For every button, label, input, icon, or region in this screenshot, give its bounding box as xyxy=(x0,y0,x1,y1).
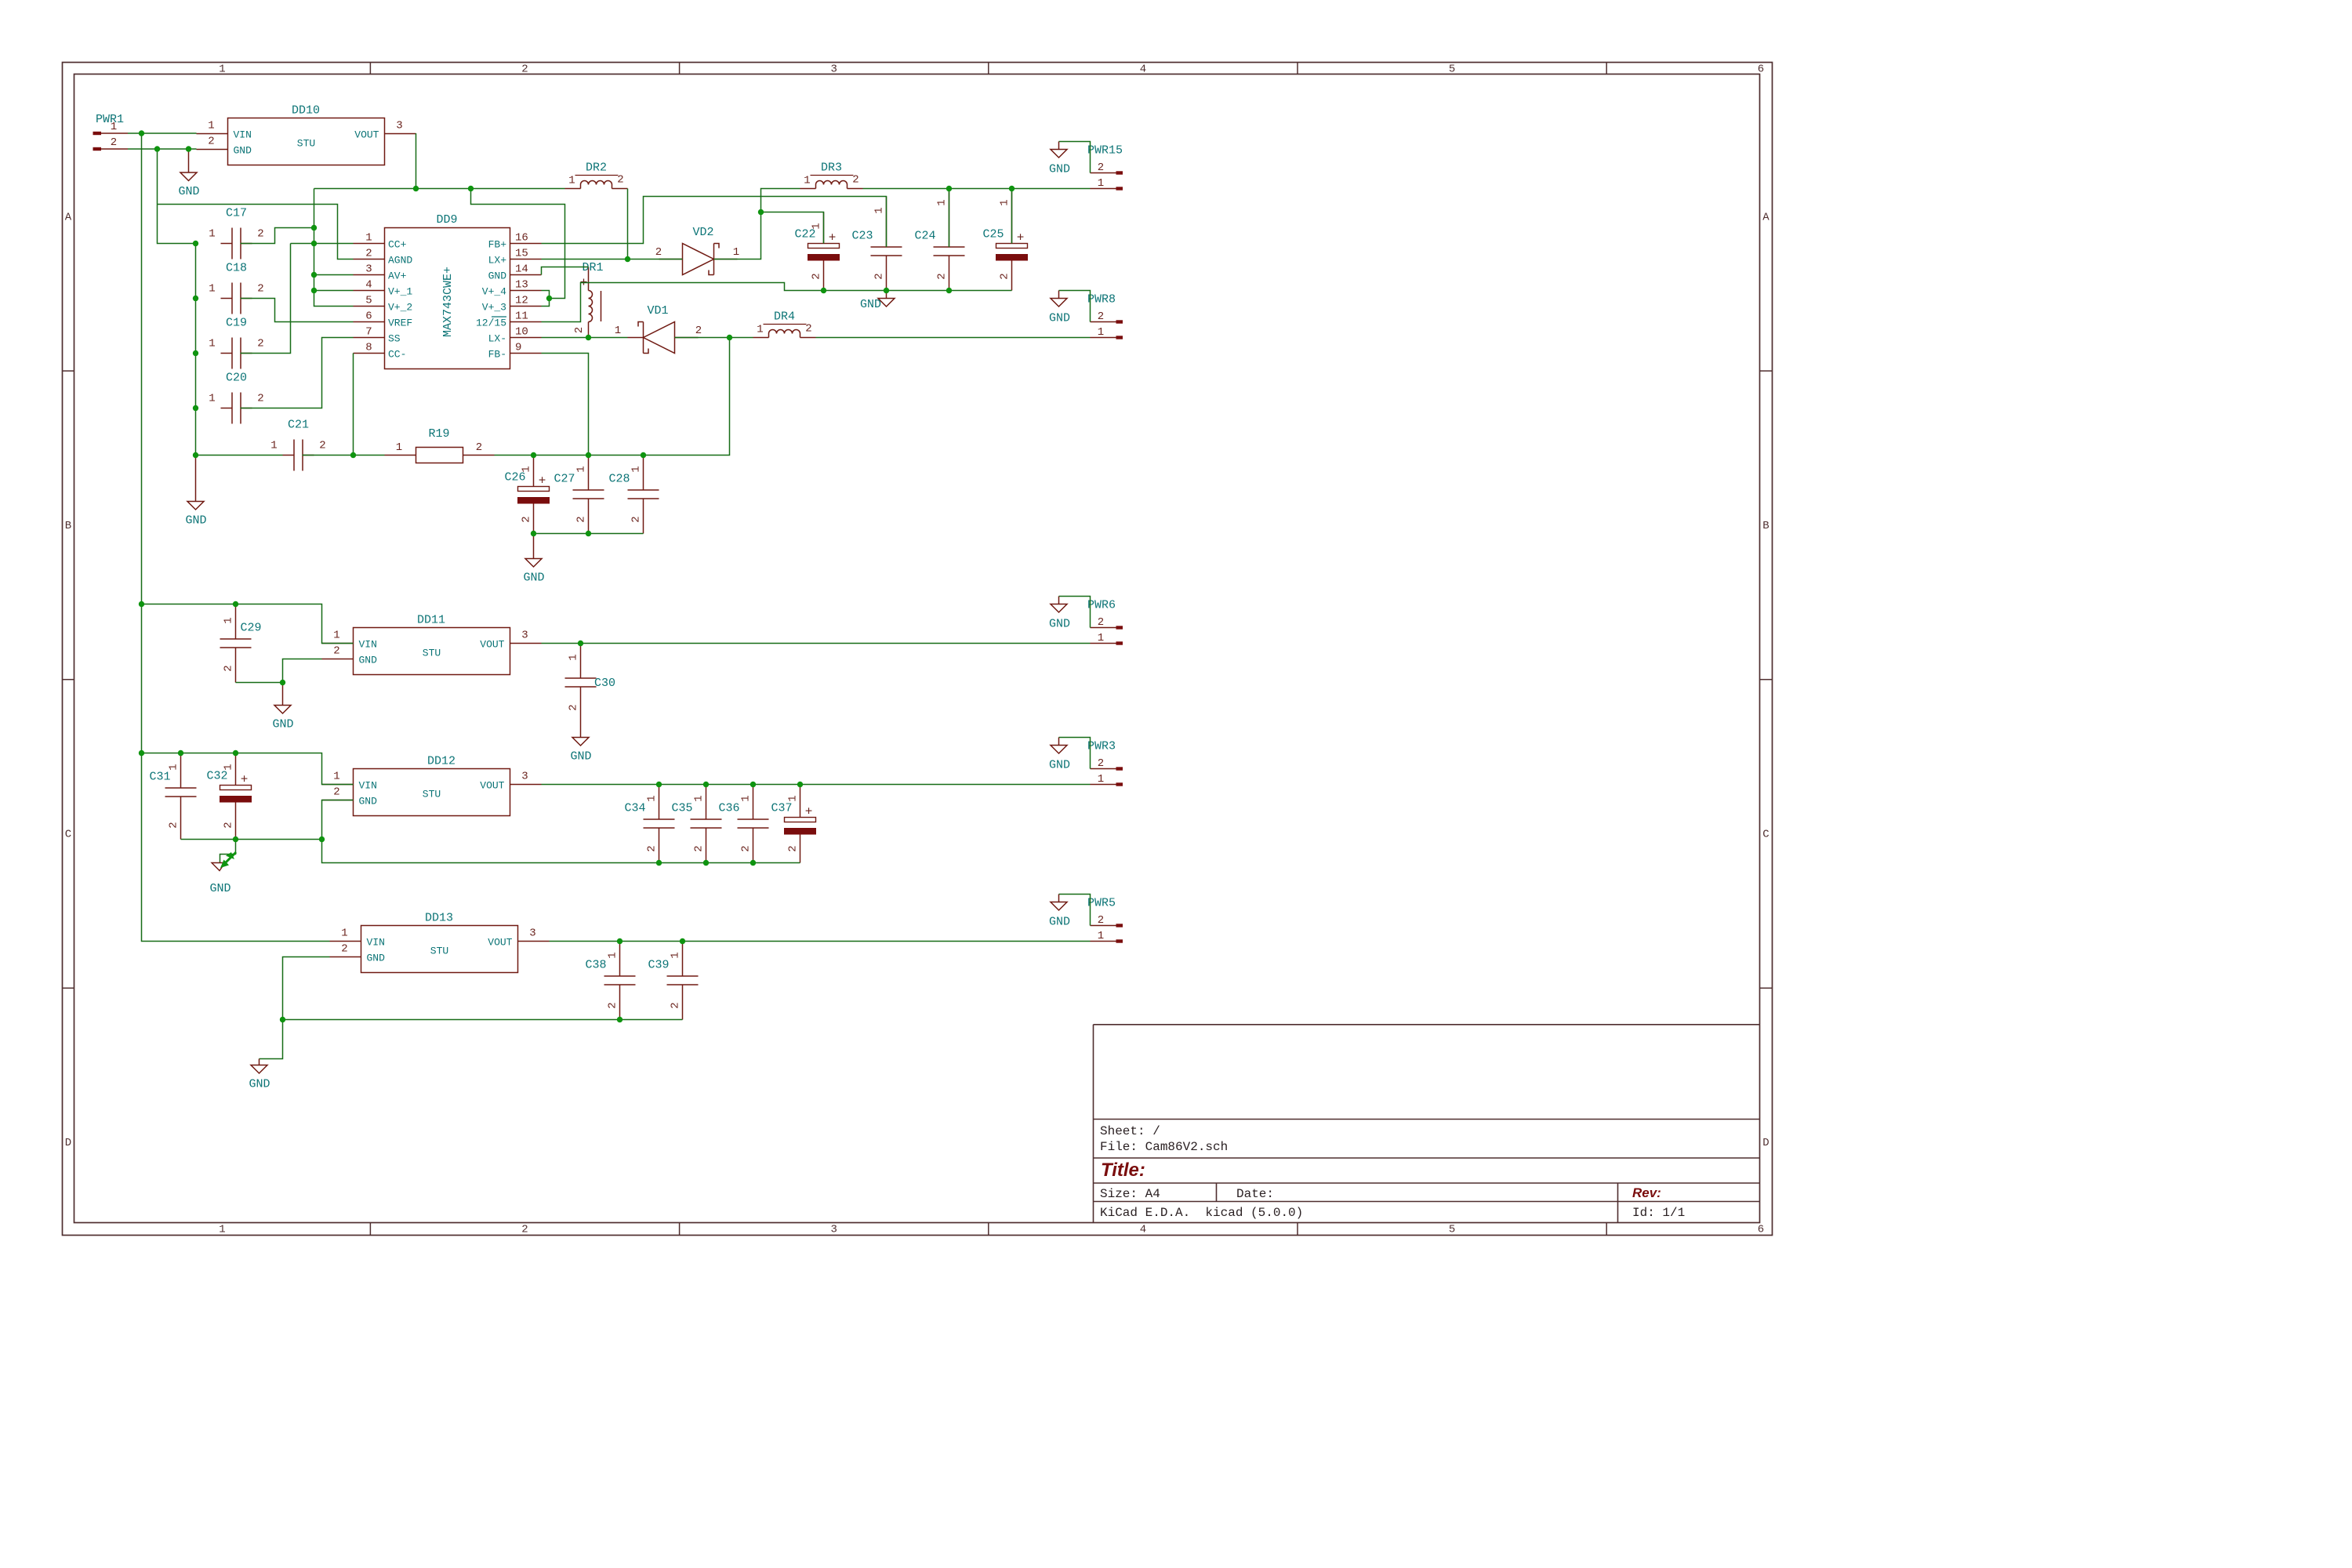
svg-text:4: 4 xyxy=(1140,1224,1146,1236)
svg-text:1: 1 xyxy=(873,207,886,213)
wire DR2 pin2 drop xyxy=(627,189,629,260)
svg-text:15: 15 xyxy=(515,248,528,260)
connector PWR3 xyxy=(1087,740,1123,786)
svg-text:FB+: FB+ xyxy=(488,239,507,251)
capacitor C27 xyxy=(554,456,604,534)
wire V+_1 stub xyxy=(314,290,354,292)
svg-text:C31: C31 xyxy=(149,771,170,784)
ground (C32 node, arrow style) xyxy=(209,840,236,896)
wire C26-28 rail to VD1 node xyxy=(495,338,730,456)
svg-text:GND: GND xyxy=(359,796,378,808)
svg-text:GND: GND xyxy=(1049,759,1070,772)
svg-text:1: 1 xyxy=(999,199,1011,205)
svg-text:1: 1 xyxy=(111,121,117,133)
wire VIN to DD12 xyxy=(142,753,354,785)
capacitor C24 xyxy=(914,189,964,291)
svg-text:GND: GND xyxy=(272,718,293,731)
capacitor C18 xyxy=(209,262,263,314)
svg-text:+: + xyxy=(241,773,249,787)
svg-text:CC-: CC- xyxy=(388,349,406,361)
svg-text:12/15: 12/15 xyxy=(476,318,506,329)
svg-text:GND: GND xyxy=(488,270,507,282)
svg-text:GND: GND xyxy=(249,1078,270,1091)
wire C29 pin2 to gnd node xyxy=(236,682,283,684)
wire VIN rail vertical x180 xyxy=(142,133,330,942)
svg-text:1: 1 xyxy=(740,795,753,801)
wire PWR3 gnd hook xyxy=(1049,738,1091,772)
capacitor C19 xyxy=(209,317,263,369)
regulator DD11 xyxy=(322,614,542,675)
svg-text:1: 1 xyxy=(575,466,588,472)
svg-text:R19: R19 xyxy=(428,427,449,441)
capacitor C20 xyxy=(209,372,263,424)
wire 12/15 to caps rail xyxy=(542,283,1012,322)
svg-text:3: 3 xyxy=(830,1224,837,1236)
svg-text:2: 2 xyxy=(573,327,586,333)
wire DD11 VOUT to PWR6 xyxy=(542,643,1091,644)
svg-text:AV+: AV+ xyxy=(388,270,407,282)
capacitor C35 xyxy=(671,785,721,863)
svg-text:1: 1 xyxy=(219,1224,225,1236)
svg-text:VD2: VD2 xyxy=(692,226,713,239)
svg-text:6: 6 xyxy=(1758,1224,1764,1236)
wire PWR5 gnd hook xyxy=(1049,895,1091,929)
svg-text:1: 1 xyxy=(646,795,659,801)
capacitor C38 xyxy=(585,942,635,1020)
svg-text:VD1: VD1 xyxy=(647,304,668,318)
svg-text:2: 2 xyxy=(208,136,214,148)
svg-text:1: 1 xyxy=(1098,773,1104,786)
svg-text:+: + xyxy=(829,231,837,245)
wire GND input to DD10 pin2 xyxy=(128,148,197,150)
wire VD2 cathode to DR3 xyxy=(714,189,800,260)
wire C38 C39 bottom rail xyxy=(283,1019,683,1021)
wire FB- drop xyxy=(542,354,589,456)
svg-text:Date:: Date: xyxy=(1236,1187,1274,1201)
connector PWR15 xyxy=(1087,144,1123,191)
wire C20 pin2 to SS xyxy=(241,338,354,408)
svg-text:C: C xyxy=(65,829,71,841)
svg-text:2: 2 xyxy=(1098,757,1104,770)
svg-text:GND: GND xyxy=(359,655,378,666)
wire 5V to V+_3/4 xyxy=(471,189,565,299)
svg-text:C35: C35 xyxy=(671,802,692,815)
svg-text:1: 1 xyxy=(209,393,215,405)
svg-text:2: 2 xyxy=(936,273,949,279)
svg-text:2: 2 xyxy=(521,64,528,76)
wire C25 pin1 stub xyxy=(1011,189,1013,244)
svg-text:1: 1 xyxy=(396,441,402,454)
svg-text:C17: C17 xyxy=(226,207,247,220)
svg-text:11: 11 xyxy=(515,310,528,323)
svg-text:6: 6 xyxy=(365,310,372,323)
title block xyxy=(1094,1025,1760,1223)
svg-text:C39: C39 xyxy=(648,959,669,972)
svg-text:1: 1 xyxy=(1098,177,1104,190)
svg-text:B: B xyxy=(1762,520,1769,532)
svg-text:1: 1 xyxy=(209,228,215,241)
capacitor C30 xyxy=(565,644,616,722)
svg-text:1: 1 xyxy=(936,199,949,205)
svg-text:V+_4: V+_4 xyxy=(482,286,506,298)
inductor DR2 xyxy=(565,162,628,189)
inductor DR3 xyxy=(800,162,863,189)
svg-text:1: 1 xyxy=(630,466,643,472)
svg-text:5: 5 xyxy=(1449,1224,1455,1236)
svg-text:1: 1 xyxy=(223,617,235,623)
wire VIN to DD11 xyxy=(142,604,354,644)
capacitor C22 (polarized) xyxy=(794,212,839,291)
svg-text:1: 1 xyxy=(693,795,706,801)
svg-text:PWR5: PWR5 xyxy=(1087,897,1116,910)
svg-text:GND: GND xyxy=(523,572,544,585)
svg-text:2: 2 xyxy=(257,228,263,241)
svg-text:GND: GND xyxy=(1049,312,1070,325)
svg-text:16: 16 xyxy=(515,232,528,245)
wire C21 pin2 to R19 xyxy=(303,455,385,456)
svg-text:C20: C20 xyxy=(226,372,247,385)
ground (PWR1 input) xyxy=(178,149,199,198)
svg-text:VIN: VIN xyxy=(359,639,377,651)
svg-text:KiCad E.D.A. kicad (5.0.0): KiCad E.D.A. kicad (5.0.0) xyxy=(1100,1206,1303,1220)
svg-text:3: 3 xyxy=(396,120,402,132)
wire GND ladder x249 xyxy=(195,244,197,456)
svg-text:C30: C30 xyxy=(594,677,615,690)
svg-text:2: 2 xyxy=(319,440,325,452)
ground (C23 node) xyxy=(860,291,895,312)
svg-text:+: + xyxy=(1017,231,1025,245)
svg-text:2: 2 xyxy=(111,136,117,149)
ground (C29/DD11) xyxy=(272,683,293,731)
capacitor C28 xyxy=(608,456,659,534)
svg-text:1: 1 xyxy=(568,654,580,660)
svg-text:2: 2 xyxy=(740,845,753,851)
svg-text:2: 2 xyxy=(476,441,482,454)
svg-text:1: 1 xyxy=(333,630,339,642)
svg-text:2: 2 xyxy=(646,845,659,851)
inductor DR4 xyxy=(753,310,816,338)
svg-text:+: + xyxy=(805,805,813,819)
svg-text:2: 2 xyxy=(257,393,263,405)
svg-text:Id: 1/1: Id: 1/1 xyxy=(1632,1206,1685,1220)
wire DD12 gnd to caps rail xyxy=(322,840,800,863)
svg-text:STU: STU xyxy=(430,946,448,957)
svg-text:1: 1 xyxy=(757,324,763,336)
svg-text:1: 1 xyxy=(787,795,800,801)
svg-text:VIN: VIN xyxy=(359,780,377,792)
svg-text:12: 12 xyxy=(515,295,528,307)
svg-text:C37: C37 xyxy=(771,802,792,815)
svg-text:1: 1 xyxy=(568,175,575,187)
svg-text:STU: STU xyxy=(423,789,441,800)
svg-text:STU: STU xyxy=(423,648,441,659)
regulator DD13 xyxy=(330,912,550,973)
svg-text:1: 1 xyxy=(615,325,621,337)
svg-text:2: 2 xyxy=(630,516,643,522)
svg-text:2: 2 xyxy=(999,273,1011,279)
svg-text:VOUT: VOUT xyxy=(480,639,504,651)
wire C18 pin2 to VREF xyxy=(241,299,354,322)
svg-text:8: 8 xyxy=(365,342,372,354)
svg-text:1: 1 xyxy=(209,283,215,296)
svg-text:C: C xyxy=(1762,829,1769,841)
svg-text:2: 2 xyxy=(521,516,533,522)
ground (DD13) xyxy=(249,1020,282,1091)
svg-text:1: 1 xyxy=(333,771,339,783)
svg-text:File: Cam86V2.sch: File: Cam86V2.sch xyxy=(1100,1140,1228,1154)
svg-text:2: 2 xyxy=(575,516,588,522)
svg-text:1: 1 xyxy=(1098,930,1104,942)
svg-text:PWR15: PWR15 xyxy=(1087,144,1123,158)
wire C19 pin2 to CC+ node xyxy=(241,244,291,354)
svg-text:2: 2 xyxy=(168,822,180,828)
svg-text:1: 1 xyxy=(811,223,823,229)
svg-text:1: 1 xyxy=(341,927,347,940)
svg-text:1: 1 xyxy=(209,338,215,350)
svg-text:D: D xyxy=(65,1137,71,1149)
svg-text:LX+: LX+ xyxy=(488,255,507,267)
svg-text:1: 1 xyxy=(270,440,277,452)
svg-text:1: 1 xyxy=(733,246,739,259)
svg-text:VOUT: VOUT xyxy=(488,937,512,949)
wire DR4 to PWR8 xyxy=(816,337,1091,339)
svg-text:DR4: DR4 xyxy=(774,310,795,324)
svg-text:MAX743CWE+: MAX743CWE+ xyxy=(441,267,455,337)
svg-text:3: 3 xyxy=(830,64,837,76)
svg-text:GND: GND xyxy=(1049,163,1070,176)
svg-text:GND: GND xyxy=(1049,618,1070,631)
svg-text:2: 2 xyxy=(333,786,339,799)
wire DD13 GND pin2 xyxy=(283,957,330,1020)
svg-text:2: 2 xyxy=(805,323,811,336)
svg-text:2: 2 xyxy=(1098,162,1104,174)
svg-text:13: 13 xyxy=(515,279,528,292)
svg-text:C21: C21 xyxy=(288,419,309,432)
svg-text:2: 2 xyxy=(811,273,823,279)
ground (C30 node) xyxy=(570,722,591,764)
svg-text:3: 3 xyxy=(521,771,528,783)
svg-text:GND: GND xyxy=(234,145,252,157)
connector PWR1 xyxy=(93,113,129,151)
svg-text:VIN: VIN xyxy=(234,129,252,141)
wire FB+ net xyxy=(542,197,887,248)
wire VD1 to DR4 xyxy=(675,337,753,339)
svg-text:PWR3: PWR3 xyxy=(1087,740,1116,753)
wire DD12 VOUT to PWR3 xyxy=(542,784,1091,786)
svg-text:VOUT: VOUT xyxy=(354,129,379,141)
svg-text:2: 2 xyxy=(365,248,372,260)
svg-text:C18: C18 xyxy=(226,262,247,275)
svg-text:1: 1 xyxy=(208,120,214,132)
wire PWR15 gnd hook xyxy=(1049,142,1091,176)
wire VIN input to DD10 pin1 xyxy=(128,132,197,134)
svg-text:14: 14 xyxy=(515,263,528,276)
svg-text:1: 1 xyxy=(1098,632,1104,644)
svg-text:Title:: Title: xyxy=(1101,1160,1145,1181)
svg-text:5: 5 xyxy=(365,295,372,307)
svg-text:STU: STU xyxy=(297,138,315,150)
resistor R19 xyxy=(385,427,495,463)
svg-text:C19: C19 xyxy=(226,317,247,330)
schottky diode VD2 xyxy=(655,226,739,275)
svg-text:PWR6: PWR6 xyxy=(1087,599,1116,612)
capacitor C31 xyxy=(149,753,196,840)
svg-text:2: 2 xyxy=(617,174,623,187)
capacitor C36 xyxy=(718,785,768,863)
svg-text:CC+: CC+ xyxy=(388,239,407,251)
svg-text:2: 2 xyxy=(257,283,263,296)
svg-text:C36: C36 xyxy=(718,802,739,815)
svg-text:C28: C28 xyxy=(608,473,630,486)
svg-text:1: 1 xyxy=(365,232,372,245)
svg-text:C27: C27 xyxy=(554,473,575,486)
svg-text:Rev:: Rev: xyxy=(1632,1185,1661,1200)
svg-text:DR1: DR1 xyxy=(582,261,603,274)
svg-text:2: 2 xyxy=(257,338,263,350)
svg-text:D: D xyxy=(1762,1137,1769,1149)
svg-text:Size: A4: Size: A4 xyxy=(1100,1187,1160,1201)
svg-text:C24: C24 xyxy=(914,230,935,243)
svg-text:DD10: DD10 xyxy=(292,104,320,118)
wire GND to C21 pin1 xyxy=(196,455,283,456)
svg-text:VIN: VIN xyxy=(367,937,385,949)
wire DD11 GND pin2 xyxy=(283,659,322,683)
wire PWR8 gnd hook xyxy=(1049,291,1091,325)
svg-text:DD13: DD13 xyxy=(425,912,453,925)
capacitor C17 xyxy=(209,207,263,260)
svg-text:DD12: DD12 xyxy=(427,755,456,768)
svg-text:1: 1 xyxy=(607,952,619,958)
capacitor C21 xyxy=(270,419,325,471)
wire LX+ to VD2 xyxy=(542,259,683,260)
svg-text:Sheet: /: Sheet: / xyxy=(1100,1124,1160,1138)
schottky diode VD1 xyxy=(615,304,702,354)
wire LX- to VD1 xyxy=(542,337,628,339)
svg-text:C25: C25 xyxy=(982,228,1004,241)
svg-text:DR3: DR3 xyxy=(821,162,842,175)
svg-text:2: 2 xyxy=(1098,616,1104,629)
regulator DD10 xyxy=(197,104,416,165)
svg-text:V+_2: V+_2 xyxy=(388,302,412,314)
transformer inductor DR1 xyxy=(573,261,604,338)
svg-text:2: 2 xyxy=(223,822,235,828)
svg-text:2: 2 xyxy=(655,246,662,259)
svg-text:2: 2 xyxy=(333,645,339,658)
svg-text:2: 2 xyxy=(852,174,858,187)
svg-text:2: 2 xyxy=(787,845,800,851)
svg-text:GND: GND xyxy=(570,750,591,764)
svg-text:1: 1 xyxy=(223,764,235,770)
svg-text:DD9: DD9 xyxy=(436,213,457,227)
wire 5V rail top xyxy=(314,188,565,190)
svg-text:PWR8: PWR8 xyxy=(1087,293,1116,307)
svg-text:4: 4 xyxy=(1140,64,1146,76)
svg-text:1: 1 xyxy=(521,466,533,472)
svg-text:GND: GND xyxy=(185,514,206,528)
svg-text:1: 1 xyxy=(670,952,682,958)
svg-text:A: A xyxy=(1762,211,1769,223)
svg-text:C32: C32 xyxy=(206,770,227,783)
svg-text:AGND: AGND xyxy=(388,255,412,267)
regulator DD12 xyxy=(322,755,542,816)
capacitor C26 (polarized) xyxy=(504,456,549,534)
svg-text:DD11: DD11 xyxy=(417,614,445,627)
svg-text:LX-: LX- xyxy=(488,333,506,345)
svg-text:2: 2 xyxy=(1098,310,1104,323)
svg-text:DR2: DR2 xyxy=(586,162,607,175)
svg-text:2: 2 xyxy=(670,1002,682,1008)
svg-text:2: 2 xyxy=(873,273,886,279)
svg-text:C34: C34 xyxy=(624,802,645,815)
connector PWR6 xyxy=(1087,599,1123,645)
svg-text:GND: GND xyxy=(1049,916,1070,929)
switching regulator DD9 MAX743 xyxy=(354,213,542,369)
svg-text:6: 6 xyxy=(1758,64,1764,76)
svg-text:2: 2 xyxy=(693,845,706,851)
wire junctions xyxy=(139,130,1014,1022)
svg-text:FB-: FB- xyxy=(488,349,506,361)
ground (C21 node) xyxy=(185,456,206,528)
wire DD13 VOUT to PWR5 xyxy=(550,941,1091,942)
capacitor C23 xyxy=(851,197,902,291)
svg-text:4: 4 xyxy=(365,279,372,292)
svg-text:1: 1 xyxy=(1098,326,1104,339)
svg-text:A: A xyxy=(65,211,72,223)
wire GND down x200 xyxy=(158,149,196,244)
svg-text:10: 10 xyxy=(515,326,528,339)
svg-text:VOUT: VOUT xyxy=(480,780,504,792)
svg-text:VREF: VREF xyxy=(388,318,412,329)
wire CC- drop xyxy=(353,354,354,456)
svg-text:3: 3 xyxy=(529,927,535,940)
wire AGND xyxy=(158,205,354,260)
svg-text:GND: GND xyxy=(367,953,386,964)
svg-text:2: 2 xyxy=(568,704,580,710)
wire C31 C32 bottom xyxy=(181,839,322,840)
capacitor C29 xyxy=(220,604,262,683)
connector PWR5 xyxy=(1087,897,1123,943)
svg-text:3: 3 xyxy=(365,263,372,276)
wire GND pin14 jog xyxy=(542,267,589,275)
wire plus12 rail xyxy=(863,188,1091,190)
svg-text:+: + xyxy=(539,474,546,488)
wire AV+ stub xyxy=(314,274,354,276)
wire DD12 GND pin2 xyxy=(322,800,354,840)
svg-text:C29: C29 xyxy=(240,622,261,635)
svg-text:2: 2 xyxy=(1098,914,1104,927)
wire V+ vertical x400 xyxy=(314,189,354,307)
wire C24 pin1 stub xyxy=(949,189,950,248)
svg-text:1: 1 xyxy=(219,64,225,76)
capacitor C39 xyxy=(648,942,698,1020)
svg-text:SS: SS xyxy=(388,333,401,345)
svg-text:2: 2 xyxy=(341,943,347,956)
svg-text:C23: C23 xyxy=(851,230,873,243)
svg-text:2: 2 xyxy=(695,325,702,337)
svg-text:2: 2 xyxy=(607,1002,619,1008)
wire V+_4 V+_3 tie xyxy=(542,291,550,307)
svg-text:V+_1: V+_1 xyxy=(388,286,412,298)
svg-text:GND: GND xyxy=(860,298,881,311)
wire C26-28 bottom rail xyxy=(534,533,644,535)
wire DD10 VOUT down xyxy=(416,133,417,189)
svg-text:V+_3: V+_3 xyxy=(482,302,506,314)
svg-text:9: 9 xyxy=(515,342,521,354)
svg-text:1: 1 xyxy=(168,764,180,770)
sheet border frame xyxy=(63,63,1773,1236)
wire C22 branch xyxy=(761,212,824,244)
wire CC+ pin1 xyxy=(291,243,354,245)
